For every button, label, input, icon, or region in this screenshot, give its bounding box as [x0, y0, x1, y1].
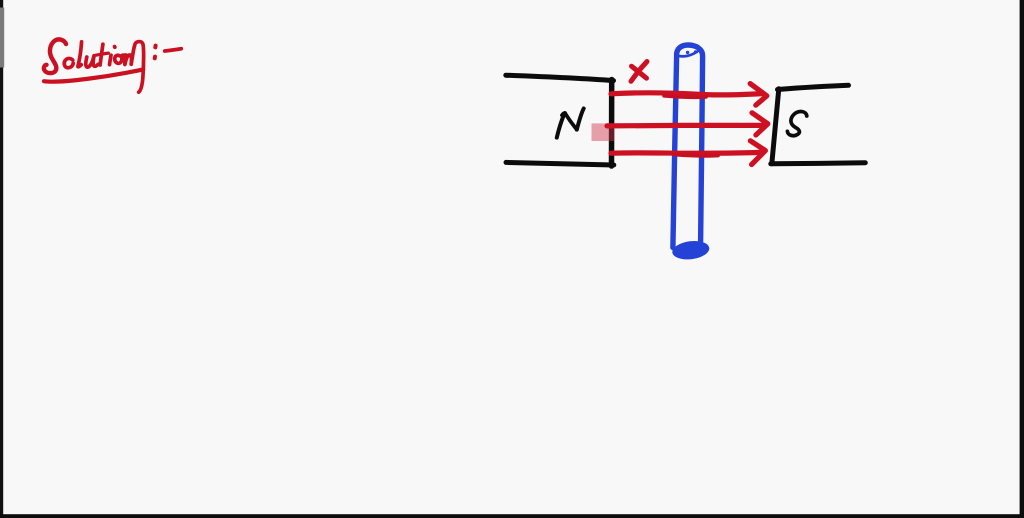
colon upper dot: [153, 46, 157, 48]
right border line: [1020, 0, 1024, 518]
red X mark: [631, 62, 647, 82]
cylinder right edge: [701, 57, 703, 242]
S pole left edge: [772, 89, 779, 164]
left scrollbar track: [0, 0, 3, 518]
pink highlight square on N pole face: [592, 123, 615, 141]
blue rod (cylinder): [671, 45, 710, 261]
handwritten title "Solution:-": [44, 39, 181, 92]
cylinder top dome: [677, 45, 703, 56]
letter i dot: [113, 45, 117, 49]
field line 2 arrowhead: [752, 113, 768, 135]
letter N label: [557, 109, 584, 138]
field line 2: [607, 123, 762, 129]
rim dot right: [694, 50, 697, 53]
cylinder top rim curve: [679, 52, 698, 57]
field line 3: [611, 150, 760, 156]
field line 1: [611, 93, 763, 95]
letter o: [115, 55, 126, 63]
letter S of Solution: [44, 39, 66, 73]
cylinder left edge: [673, 57, 677, 248]
colon lower dot: [153, 57, 157, 59]
field line 3 arrowhead: [750, 141, 765, 165]
S pole bottom edge: [771, 163, 866, 164]
dash: [165, 49, 181, 51]
N pole top edge: [506, 75, 614, 80]
letter i stem: [110, 55, 112, 64]
underline flourish: [44, 69, 143, 81]
magnet S pole outline: [771, 85, 866, 164]
field line 3 overdraw dip: [674, 155, 718, 156]
letter t crossbar: [95, 53, 108, 55]
field line 1 arrowhead: [750, 84, 767, 106]
magnet N pole outline: [506, 75, 614, 166]
rim dot left: [686, 51, 689, 54]
bottom border bar: [0, 514, 1024, 518]
N pole right edge: [609, 80, 615, 167]
letter u: [86, 56, 98, 67]
S pole top edge: [778, 85, 849, 89]
letter o: [64, 58, 73, 67]
letter S label: [787, 111, 806, 135]
N pole bottom edge: [506, 162, 614, 165]
letter t stem: [100, 44, 103, 65]
left scrollbar thumb: [0, 8, 4, 68]
field line 1 overdraw dip: [664, 96, 706, 97]
letter l: [78, 42, 82, 67]
letter n with flourish tail: [125, 42, 144, 93]
cylinder bottom cap: [671, 239, 710, 261]
